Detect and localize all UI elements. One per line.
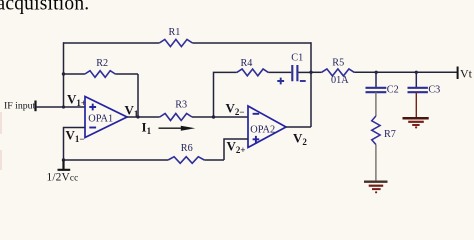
C1 polarity plus <box>277 78 284 85</box>
wire: R5 row left stub <box>311 71 321 73</box>
capacitor C2 <box>366 88 387 92</box>
resistor R6 <box>168 157 204 164</box>
wire: left vertical rail V1+ node <box>63 42 65 107</box>
OPA2 minus sign <box>253 113 260 115</box>
wire: OPA1 inverting input down to 1/2Vcc rail <box>64 128 86 161</box>
C1 polarity minus <box>300 80 306 82</box>
node junction at R2 drop / output row <box>136 115 139 118</box>
resistor R5 <box>321 69 354 76</box>
wire: R2 row <box>64 74 139 117</box>
wire: right vertical rail V2 node <box>310 42 312 127</box>
OPA1 plus sign <box>89 104 96 111</box>
node junction at 1/2Vcc rail / R6 row <box>62 158 65 161</box>
svg-text:C2: C2 <box>387 85 399 96</box>
svg-text:R3: R3 <box>175 99 187 110</box>
svg-text:acquisition.: acquisition. <box>0 0 89 15</box>
node junction at left rail / R2 <box>62 72 65 75</box>
svg-text:OPA1: OPA1 <box>88 114 113 125</box>
svg-text:C1: C1 <box>291 53 303 64</box>
svg-text:R7: R7 <box>384 129 396 140</box>
node junction at V2 rail / C1 / R5 <box>309 71 312 74</box>
wire: R6 row from 1/2Vcc rail to OPA2 non-inverting input <box>64 139 249 160</box>
resistor R4 <box>237 69 268 76</box>
svg-text:R4: R4 <box>241 58 253 69</box>
wire: top net from V1+ rail to V2 rail <box>64 42 312 44</box>
wire: R4 branch riser <box>214 72 237 117</box>
wire: C3 top stub <box>415 72 417 87</box>
wire: OPA2 output to V2 rail <box>286 126 311 128</box>
svg-text:R5: R5 <box>332 58 344 69</box>
op-amp OPA2 <box>248 106 286 148</box>
node junction at C3 <box>415 71 418 74</box>
svg-text:OPA2: OPA2 <box>250 125 275 136</box>
op-amp OPA1 <box>85 97 127 138</box>
OPA1 minus sign <box>89 127 96 129</box>
wire: R7 to ground (gray) <box>375 145 377 181</box>
svg-text:1/2Vcc: 1/2Vcc <box>47 172 79 184</box>
node junction V2- (R3/R4 tee) <box>212 115 215 118</box>
resistor R2 <box>85 71 115 78</box>
wire: R5 row to Vt terminal <box>354 71 457 73</box>
OPA2 plus sign <box>253 136 260 143</box>
svg-text:01A: 01A <box>331 75 349 86</box>
wire: C3 to ground (maroon) <box>415 92 417 117</box>
svg-text:Vt: Vt <box>460 66 473 80</box>
wire: R4 to C1 <box>268 71 291 73</box>
scan artifact left edge <box>0 112 2 170</box>
capacitor C1 <box>292 65 297 81</box>
wire: C2 top stub <box>375 72 377 87</box>
svg-text:R6: R6 <box>181 143 193 154</box>
wire: C2 bottom to R7 (gray) <box>375 92 377 116</box>
ground under R7 <box>364 182 388 194</box>
resistor R3 <box>160 114 192 121</box>
capacitor C3 <box>408 88 428 92</box>
current arrow I1 <box>159 127 185 129</box>
svg-text:R1: R1 <box>169 27 181 38</box>
resistor R7 <box>372 116 380 145</box>
svg-text:IF input: IF input <box>4 101 36 112</box>
terminal IF input <box>34 101 36 112</box>
node junction at C2 <box>375 71 378 74</box>
resistor R1 <box>159 39 192 46</box>
svg-text:C3: C3 <box>428 85 440 96</box>
wire: C1 to V2 rail <box>298 71 311 73</box>
wire: OPA1 output row to OPA2 inverting input <box>127 116 248 118</box>
ground under C3 <box>403 118 429 128</box>
wire: IF input to OPA1 non-inverting input <box>36 106 85 108</box>
svg-text:R2: R2 <box>96 58 108 69</box>
node junction at left rail / IF input <box>62 105 65 108</box>
terminal Vt <box>457 67 459 80</box>
power terminal 1/2Vcc <box>58 160 71 170</box>
